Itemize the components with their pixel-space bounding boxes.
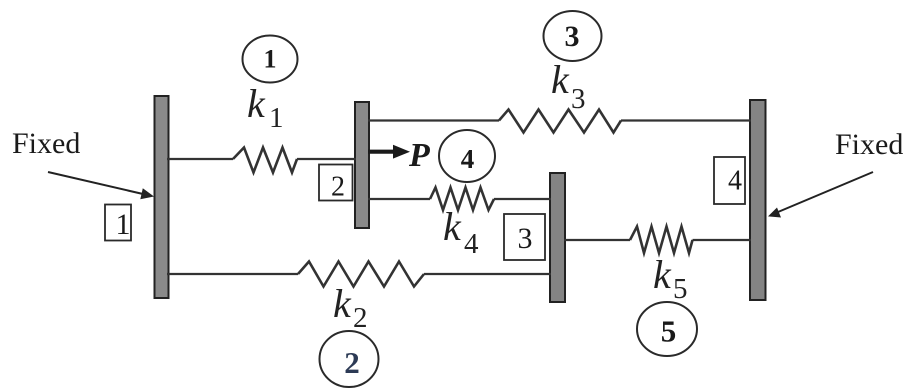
spring k1 <box>233 148 297 173</box>
svg-text:Fixed: Fixed <box>835 128 903 161</box>
node box 3 <box>504 214 545 260</box>
wall node 3 (middle-right wall) <box>550 173 565 302</box>
svg-text:k: k <box>551 57 570 102</box>
spring label k4 <box>443 204 479 260</box>
element circle 3 <box>544 11 602 61</box>
svg-text:1: 1 <box>269 102 284 134</box>
wall node 1 (left fixed wall) <box>155 96 169 298</box>
spring k4 <box>430 188 494 211</box>
spring label k3 <box>551 57 586 115</box>
wire spring k4 to node3 <box>494 198 551 200</box>
svg-text:4: 4 <box>728 166 742 197</box>
wire spring k1 to node2 <box>297 158 356 160</box>
spring k2 <box>298 262 424 287</box>
wire node2 to spring k3 <box>368 119 499 121</box>
svg-text:4: 4 <box>464 228 479 260</box>
arrow from right Fixed label to wall 4 <box>768 172 873 218</box>
svg-text:5: 5 <box>673 273 688 305</box>
svg-text:k: k <box>247 81 266 126</box>
svg-text:1: 1 <box>264 45 277 74</box>
svg-text:3: 3 <box>518 222 533 255</box>
spring label k2 <box>333 281 368 334</box>
svg-text:2: 2 <box>344 345 360 380</box>
svg-text:5: 5 <box>661 314 677 349</box>
arrow from left Fixed label to wall 1 <box>48 172 154 199</box>
spring k3 <box>499 110 621 133</box>
element circle 2 <box>320 331 379 387</box>
svg-text:k: k <box>653 252 672 297</box>
svg-text:3: 3 <box>571 83 586 115</box>
svg-text:4: 4 <box>461 144 475 174</box>
wire node3 to spring k5 <box>564 239 630 241</box>
node box 4 <box>714 157 745 204</box>
svg-text:3: 3 <box>565 20 580 53</box>
svg-text:k: k <box>443 204 462 249</box>
wire node1 to spring k2 <box>167 273 298 275</box>
element circle 5 <box>637 302 697 356</box>
node box 2 <box>319 165 353 203</box>
svg-text:k: k <box>333 281 352 326</box>
wall node 4 (right fixed wall) <box>750 100 766 300</box>
node box 1 <box>105 205 131 242</box>
wire node2 to spring k4 <box>368 198 430 200</box>
element circle 1 <box>243 36 298 83</box>
wire spring k2 to node3 <box>424 273 551 275</box>
wall node 2 (middle-left wall) <box>355 102 369 228</box>
svg-text:Fixed: Fixed <box>12 127 80 160</box>
element circle 4 <box>439 130 495 182</box>
wire spring k5 to node4 <box>693 239 752 241</box>
svg-text:2: 2 <box>353 302 368 334</box>
svg-text:1: 1 <box>116 208 131 241</box>
spring label k5 <box>653 252 688 305</box>
svg-text:P: P <box>408 137 430 174</box>
spring k5 <box>630 227 693 254</box>
wire node1 to spring k1 <box>167 158 233 160</box>
spring label k1 <box>247 81 284 134</box>
force P arrow at node 2 <box>368 145 410 159</box>
svg-text:2: 2 <box>331 172 345 203</box>
wire spring k3 to node4 <box>621 119 751 121</box>
